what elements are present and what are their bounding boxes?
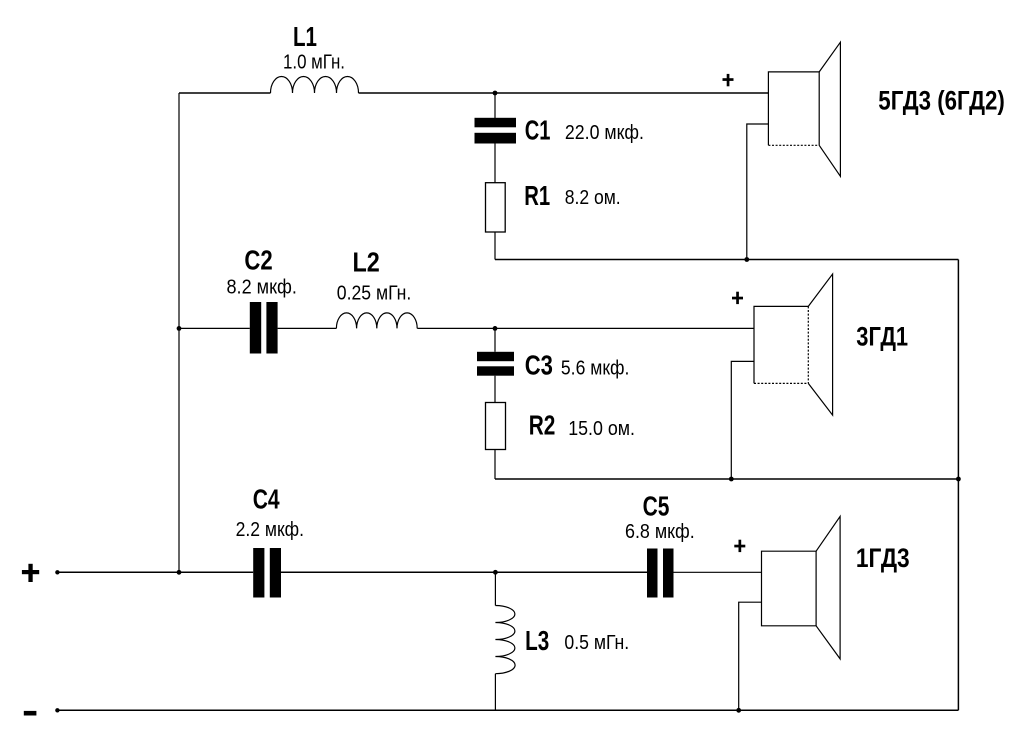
wire: speaker U1 negative lead	[747, 124, 769, 260]
node: middle branch / C3 junction	[493, 326, 498, 331]
node: plus terminal dot	[55, 570, 59, 574]
svg-text:R1: R1	[524, 180, 550, 211]
svg-text:C3: C3	[525, 350, 553, 381]
svg-text:0.25 мГн.: 0.25 мГн.	[337, 283, 412, 305]
node: left bus meets plus line	[177, 570, 182, 575]
node: plus line / L3 junction	[493, 570, 498, 575]
wire: L3 branch top	[494, 572, 496, 605]
speaker U1 cone	[819, 42, 840, 176]
node: bus2 / right bus junction	[956, 477, 961, 482]
wire: speaker U2 negative lead	[731, 361, 754, 479]
wire: C3 to R2	[494, 376, 496, 403]
plus mark speaker U3	[734, 545, 745, 548]
svg-text:5.6 мкф.: 5.6 мкф.	[561, 358, 630, 380]
speaker U2 cone	[808, 274, 832, 415]
svg-text:2.2 мкф.: 2.2 мкф.	[236, 519, 304, 541]
wire: bus2 horizontal y=477.5	[495, 478, 958, 480]
wire: C1 branch top	[494, 93, 496, 118]
wire: bottom bus	[57, 709, 958, 711]
svg-text:5ГД3 (6ГД2): 5ГД3 (6ГД2)	[878, 86, 1005, 116]
wire: C2 to L2	[278, 327, 337, 329]
wire: top bus left segment	[179, 92, 271, 94]
node: U1 negative to bus1	[744, 257, 749, 262]
capacitor C1	[475, 118, 517, 128]
inductor L3	[495, 606, 515, 674]
svg-text:1ГД3: 1ГД3	[856, 543, 910, 573]
plus mark speaker U1	[723, 78, 734, 81]
wire: R2 down to bus2	[494, 450, 496, 480]
capacitor C3	[477, 352, 514, 361]
wire: middle branch to C2	[179, 327, 250, 329]
node: left bus / middle branch	[177, 326, 182, 331]
plus mark speaker U2	[732, 297, 743, 300]
wire: C1 to R1	[494, 144, 496, 183]
plus input terminal	[22, 570, 39, 574]
wire: left vertical bus	[178, 93, 180, 572]
capacitor C4	[253, 548, 264, 598]
minus input terminal	[24, 711, 37, 716]
svg-text:L1: L1	[293, 21, 317, 52]
speaker U1 5ГД3 rectangle	[768, 72, 819, 145]
capacitor C5	[647, 549, 658, 598]
svg-text:3ГД1: 3ГД1	[856, 321, 908, 351]
svg-text:L3: L3	[525, 625, 549, 656]
capacitor C2	[250, 302, 261, 354]
svg-text:R2: R2	[529, 410, 556, 441]
svg-text:C4: C4	[253, 483, 280, 514]
speaker U3 1ГД3 rectangle	[762, 551, 817, 626]
inductor L1	[271, 77, 359, 93]
svg-text:C2: C2	[244, 244, 272, 275]
svg-text:8.2 ом.: 8.2 ом.	[565, 187, 621, 209]
speaker U2 3ГД1 rectangle	[754, 306, 808, 383]
wire: top bus right segment	[359, 92, 769, 94]
wire: bus1 horizontal y=258.5	[495, 259, 958, 261]
svg-text:6.8 мкф.: 6.8 мкф.	[625, 521, 695, 543]
node: U3 negative to bottom bus	[736, 708, 741, 713]
svg-text:8.2 мкф.: 8.2 мкф.	[227, 277, 297, 299]
wire: plus line to C4	[57, 571, 253, 573]
wire: L2 to speaker U2	[417, 327, 754, 329]
resistor R2	[486, 403, 506, 450]
svg-text:22.0 мкф.: 22.0 мкф.	[565, 122, 644, 144]
inductor L2	[336, 313, 417, 329]
resistor R1	[486, 183, 506, 232]
wire: C5 to speaker U3	[674, 571, 762, 573]
node: top bus / C1 branch junction	[493, 91, 498, 96]
wire: C3 branch top	[494, 328, 496, 351]
svg-text:1.0 мГн.: 1.0 мГн.	[283, 52, 345, 74]
svg-text:0.5 мГн.: 0.5 мГн.	[564, 632, 629, 654]
wire: speaker U3 negative lead	[739, 602, 762, 710]
node: minus terminal dot	[55, 708, 59, 712]
svg-text:L2: L2	[353, 247, 380, 278]
svg-text:C1: C1	[525, 115, 551, 146]
wire: R1 down to bus1	[494, 232, 496, 260]
wire: L3 to bottom bus	[494, 674, 496, 711]
svg-text:C5: C5	[643, 491, 670, 522]
svg-text:15.0 ом.: 15.0 ом.	[568, 418, 635, 440]
wire: C4 to C5	[281, 571, 647, 573]
node: U2 negative to bus2	[729, 477, 734, 482]
speaker U3 cone	[816, 516, 840, 659]
wire: right vertical bus	[957, 260, 959, 711]
